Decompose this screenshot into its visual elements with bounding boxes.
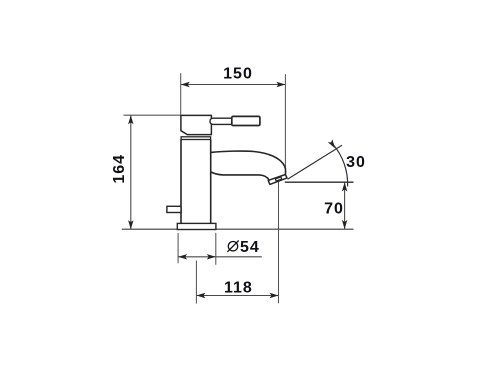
faucet handle cap — [181, 115, 212, 134]
dimension 118 line — [196, 295, 278, 297]
svg-text:54: 54 — [240, 239, 260, 256]
svg-text:150: 150 — [223, 65, 253, 82]
faucet collar ring — [181, 137, 211, 140]
dimension 164 extension line top — [124, 114, 182, 116]
faucet spout bottom curve — [211, 172, 270, 183]
dimension 70 line — [344, 182, 346, 229]
dimension 118 extension line left (body centerline) — [195, 261, 197, 304]
faucet lever grip — [232, 116, 260, 125]
dimension 150 extension line left — [180, 73, 182, 114]
dimension 118 arrow right — [270, 293, 279, 298]
svg-text:30: 30 — [346, 154, 366, 171]
faucet spout top curve — [211, 151, 286, 174]
svg-text:70: 70 — [324, 201, 344, 218]
faucet pop-up rod — [167, 206, 181, 212]
spout height reference line — [285, 181, 354, 183]
dimension 30 arc arrow — [328, 139, 337, 149]
faucet lever rod — [210, 118, 235, 124]
faucet aerator insert — [275, 177, 281, 181]
dimension 54 line — [178, 256, 262, 258]
dimension 150 arrow right — [276, 82, 285, 87]
label diameter symbol — [227, 241, 238, 252]
faucet base plate — [177, 223, 216, 229]
dimension 118 extension line right (spout tip) — [278, 182, 280, 304]
dimension 150 extension line right — [284, 74, 286, 169]
dimension 70 arrow top — [342, 182, 347, 191]
faucet body left edge — [180, 140, 182, 224]
dimension 164 arrow top — [128, 115, 133, 124]
dimension 54 extension line left — [177, 233, 179, 263]
dimension 164 arrow bottom — [128, 220, 133, 229]
dimension 54 extension line right — [215, 233, 217, 265]
dimension 70 arrow bottom — [342, 220, 347, 229]
svg-text:164: 164 — [111, 154, 128, 184]
faucet body right edge — [210, 140, 212, 224]
faucet aerator band — [268, 175, 287, 185]
dimension 54 arrow left — [178, 254, 187, 259]
wire surface line (mounting surface) — [122, 228, 354, 230]
dimension 118 arrow left — [196, 293, 205, 298]
dimension 30 arc — [333, 144, 348, 186]
dimension 30 angled line — [288, 145, 343, 179]
dimension 164 line — [130, 115, 132, 229]
dimension 54 arrow right — [207, 254, 216, 259]
dimension 150 line — [181, 84, 286, 86]
dimension 150 arrow left — [181, 82, 190, 87]
svg-text:118: 118 — [224, 280, 253, 297]
